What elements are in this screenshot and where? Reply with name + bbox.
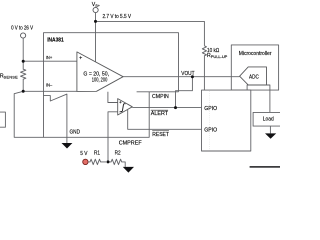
svg-text:IN–: IN–	[46, 82, 53, 88]
label amp plus marker	[79, 56, 82, 59]
svg-text:GND: GND	[70, 130, 81, 136]
wire microcontroller to load	[247, 85, 270, 112]
wire IN- to amp	[23, 90, 77, 92]
label comparator plus marker	[119, 101, 121, 103]
resistor R1	[88, 159, 106, 164]
svg-text:RSENSE: RSENSE	[0, 74, 18, 80]
svg-text:VOUT: VOUT	[181, 71, 195, 77]
node VS+ supply terminal	[93, 7, 98, 12]
node junction dot VOUT	[191, 75, 194, 78]
wire VS+ down into amp	[95, 13, 97, 63]
box Load	[253, 112, 282, 126]
svg-text:GPIO: GPIO	[204, 128, 217, 134]
svg-text:G = 20, 50,: G = 20, 50,	[83, 71, 109, 77]
node junction dot VS	[94, 20, 97, 23]
node junction dot ALERT	[174, 106, 177, 109]
svg-text:RPULL-UP: RPULL-UP	[207, 53, 228, 59]
svg-text:R1: R1	[94, 151, 100, 157]
box Microcontroller	[231, 45, 278, 90]
svg-text:ALERT: ALERT	[151, 111, 169, 117]
node 5V terminal red circle	[83, 159, 88, 164]
wire comparator plus input	[108, 92, 118, 103]
wire terminal down to IN+ node	[22, 38, 24, 61]
wire IN+ to amp	[23, 60, 77, 62]
node junction dot IN-	[22, 90, 25, 93]
svg-text:INA381: INA381	[47, 37, 64, 43]
wire ALERT from comparator to GPIO	[132, 106, 201, 108]
label comparator hysteresis symbol	[121, 104, 126, 112]
resistor R2	[110, 159, 126, 167]
wire VOUT jog down-left to CMPIN	[176, 77, 193, 108]
wire RESET to GPIO	[128, 110, 202, 130]
svg-text:2.7 V to 5.5 V: 2.7 V to 5.5 V	[103, 14, 132, 20]
adc block pentagon	[240, 67, 267, 85]
svg-text:5 V: 5 V	[80, 151, 88, 157]
svg-text:0 V to 26 V: 0 V to 26 V	[11, 26, 33, 32]
wire GND internal routing	[44, 94, 67, 143]
node junction dot IN+	[22, 60, 25, 63]
resistor R pull-up	[202, 46, 206, 90]
svg-text:R2: R2	[115, 151, 121, 157]
svg-text:Microcontroller: Microcontroller	[239, 51, 272, 57]
wire IN- node down to bottom rail	[14, 91, 43, 137]
svg-text:VS+: VS+	[92, 2, 101, 8]
ground symbol below load	[265, 133, 276, 138]
svg-text:GPIO: GPIO	[204, 106, 217, 112]
label comparator minus marker	[119, 111, 121, 113]
svg-text:IN+: IN+	[46, 55, 53, 61]
ground symbol at GND pin	[62, 143, 73, 149]
wire comparator minus input / CMPREF	[108, 112, 118, 162]
svg-text:Load: Load	[263, 117, 274, 123]
svg-text:100, 200: 100, 200	[92, 78, 108, 84]
resistor RSENSE	[21, 61, 26, 91]
ground symbol below R2	[123, 167, 134, 173]
wire dashed bus inside GPIO box	[208, 91, 210, 151]
box cut-off at left image edge	[0, 112, 5, 127]
op-amp U1 current-sense amplifier	[77, 52, 123, 92]
node bus terminal 0V-26V	[21, 33, 26, 38]
wire CMPIN step line into box	[137, 91, 179, 93]
box INA381 outline (stepped)	[44, 33, 179, 138]
wire VS+ right to pull-up resistor	[96, 21, 205, 45]
svg-text:RESET: RESET	[152, 132, 169, 138]
svg-text:ADC: ADC	[249, 74, 259, 80]
wire stray cut-off line bottom right	[250, 166, 280, 168]
node junction dot CMPREF divider	[107, 160, 110, 163]
comparator U2	[118, 99, 133, 115]
svg-text:CMPIN: CMPIN	[152, 94, 169, 100]
wire VOUT from amp to ADC	[123, 76, 239, 78]
wire load to ground	[269, 126, 271, 133]
box GPIO block of microcontroller	[202, 90, 251, 151]
svg-text:CMPREF: CMPREF	[119, 140, 143, 146]
